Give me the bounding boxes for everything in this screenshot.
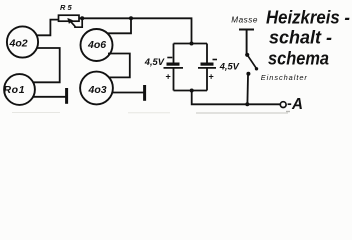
terminal bar (4o3 heater pin) <box>143 85 146 101</box>
svg-text:A: A <box>291 96 303 113</box>
battery B2 negative plate <box>201 62 214 65</box>
dash before A <box>288 103 292 105</box>
wire: switch to bottom bus <box>246 76 249 105</box>
battery B1 positive plate <box>164 67 184 69</box>
battery B2 positive plate <box>198 67 216 69</box>
switch S1 upper contact dot <box>245 53 249 57</box>
minus sign B1 <box>167 57 172 59</box>
junction dot (4o6 lead to bus) <box>129 16 133 20</box>
wire: top bus from R5 to battery feed corner <box>79 18 192 43</box>
svg-text:Einschalter: Einschalter <box>261 73 308 82</box>
R5 wiper arrow <box>68 18 75 26</box>
scan smudge bottom right <box>196 112 288 114</box>
svg-text:4,5V: 4,5V <box>144 57 165 67</box>
wire: 4o6 top lead <box>107 18 131 33</box>
junction dot (battery feed top) <box>190 42 194 46</box>
battery B2 branch wires <box>206 44 208 91</box>
svg-text:R 5: R 5 <box>60 3 73 12</box>
scan speck below A <box>286 111 290 113</box>
terminal A circle <box>280 102 286 108</box>
switch S1 lever <box>247 55 256 69</box>
ground symbol (Masse) <box>239 30 254 54</box>
svg-text:4,5V: 4,5V <box>219 61 240 71</box>
minus sign B2 <box>213 59 218 61</box>
junction dot (wiper to bus) <box>80 16 84 20</box>
resistor R5 (potentiometer body) <box>59 15 80 21</box>
wire: R5 wiper return loop <box>75 18 82 27</box>
svg-text:+: + <box>209 72 214 82</box>
tube V2 (4o6) <box>81 29 113 61</box>
svg-text:Masse: Masse <box>231 16 258 25</box>
svg-text:4o3: 4o3 <box>88 84 107 96</box>
wire: 4o2 top lead to R5 <box>37 20 59 36</box>
battery B1 branch wires <box>173 44 175 91</box>
wire: 4o6 bottom lead down to 4o3 <box>108 54 130 78</box>
battery box bottom side <box>174 90 208 92</box>
wire: bottom bus to terminal A <box>192 91 281 105</box>
junction dot (switch to bottom bus) <box>245 102 249 106</box>
svg-text:Heizkreis -: Heizkreis - <box>266 8 350 28</box>
junction dot (battery feed bottom) <box>190 89 194 93</box>
terminal bar (Ro1 heater pin) <box>65 88 68 104</box>
battery box top side <box>174 43 208 45</box>
svg-text:+: + <box>166 72 171 82</box>
scan smudge bottom left <box>12 112 170 114</box>
svg-text:4o6: 4o6 <box>87 39 106 51</box>
tube V3 (Ro1) <box>4 74 35 105</box>
wire: Ro1 bottom lead <box>33 96 66 98</box>
svg-text:Ro1: Ro1 <box>4 84 26 96</box>
tube V1 (4o2) <box>7 26 38 57</box>
svg-text:schema: schema <box>268 48 329 69</box>
wire: 4o3 bottom lead <box>112 92 144 94</box>
switch S1 lower contact dot <box>246 72 250 76</box>
svg-text:schalt -: schalt - <box>269 27 332 47</box>
tube V4 (4o3) <box>80 72 113 105</box>
wire: 4o2 bottom lead down to Ro1 <box>33 48 60 82</box>
switch S1 lever tip blob <box>255 67 258 70</box>
svg-text:4o2: 4o2 <box>9 37 28 49</box>
battery B1 negative plate <box>167 62 180 65</box>
